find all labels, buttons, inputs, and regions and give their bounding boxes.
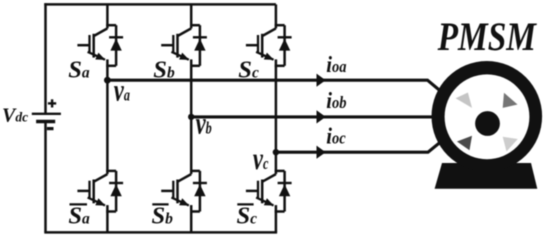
diode D5 (freewheel, anti-parallel with S_c)	[278, 25, 292, 66]
svg-text:va: va	[114, 73, 131, 107]
svg-text:iob: iob	[326, 87, 346, 114]
battery polarity: minus sign	[47, 127, 54, 130]
node v_c junction dot	[273, 149, 279, 155]
wire: phase a output line	[107, 80, 447, 96]
diode D1 (freewheel, anti-parallel with S_a)	[109, 25, 123, 66]
svg-text:Sc: Sc	[237, 203, 258, 230]
wire: leg c midpoint segment	[275, 66, 278, 171]
diode D2 (freewheel, anti-parallel with S̄_a)	[109, 171, 123, 212]
diode D3 (freewheel, anti-parallel with S_b)	[193, 25, 207, 66]
transistor S_c (IGBT)	[246, 25, 285, 66]
diode D6 (freewheel, anti-parallel with S̄_c)	[278, 171, 292, 212]
node v_b junction dot	[188, 114, 194, 120]
svg-text:PMSM: PMSM	[437, 15, 538, 60]
svg-text:ioa: ioa	[326, 51, 346, 78]
wire: leg a midpoint segment	[106, 66, 109, 171]
battery Vdc: negative (short) plate	[36, 120, 55, 124]
wire: left DC link, upper segment	[44, 3, 47, 113]
PMSM motor: foot/base	[435, 163, 538, 189]
battery polarity: plus sign	[48, 99, 56, 107]
current arrow i_oa	[317, 74, 326, 87]
svg-text:Sa: Sa	[68, 203, 90, 230]
label S̄a (lower switch a, overbar)	[68, 203, 90, 230]
transistor S_a (IGBT)	[77, 25, 116, 66]
wire: leg a from lower switch to bottom rail	[106, 212, 109, 233]
battery Vdc: positive (long) plate	[32, 113, 61, 115]
PMSM motor: rotor vane lower-left (dark)	[457, 136, 472, 151]
wire: leg c from top rail to upper switch	[275, 4, 278, 25]
PMSM motor: stator inner face	[445, 74, 530, 159]
PMSM motor: stator outer ring	[432, 61, 543, 172]
transistor S̄_b (IGBT)	[161, 171, 200, 212]
wire: phase b output line	[191, 115, 450, 118]
diode D4 (freewheel, anti-parallel with S̄_b)	[193, 171, 207, 212]
svg-text:ioc: ioc	[326, 122, 346, 149]
PMSM motor: rotor vane lower-right (light)	[503, 137, 518, 152]
label S̄c (lower switch c, overbar)	[237, 203, 258, 230]
svg-text:vc: vc	[253, 142, 269, 176]
svg-text:Sa: Sa	[68, 57, 90, 84]
current arrow i_ob	[317, 110, 326, 123]
PMSM motor: rotor vane upper-right (dark)	[503, 93, 518, 108]
node v_a junction dot	[104, 77, 111, 84]
transistor S̄_a (IGBT)	[77, 171, 116, 212]
transistor S̄_c (IGBT)	[246, 171, 285, 212]
transistor S_b (IGBT)	[161, 25, 200, 66]
svg-text:Vdc: Vdc	[2, 105, 28, 127]
svg-text:vb: vb	[196, 106, 212, 140]
wire: negative DC bus (bottom rail)	[44, 231, 277, 234]
wire: positive DC bus (top rail)	[44, 3, 276, 6]
PMSM motor: rotor vane upper-left (light)	[456, 93, 472, 108]
wire: leg b from lower switch to bottom rail	[190, 212, 193, 233]
wire: leg c from lower switch to bottom rail	[275, 212, 278, 233]
wire: leg b midpoint segment	[190, 66, 193, 171]
wire: phase c output line	[276, 138, 446, 153]
current arrow i_oc	[317, 146, 326, 159]
wire: leg b from top rail to upper switch	[190, 4, 193, 25]
wire: leg a from top rail to upper switch	[106, 4, 109, 25]
PMSM motor: rotor shaft dot	[475, 111, 500, 136]
svg-text:Sb: Sb	[152, 203, 174, 230]
label S̄b (lower switch b, overbar)	[152, 203, 174, 230]
wire: left DC link, lower segment	[44, 122, 47, 232]
